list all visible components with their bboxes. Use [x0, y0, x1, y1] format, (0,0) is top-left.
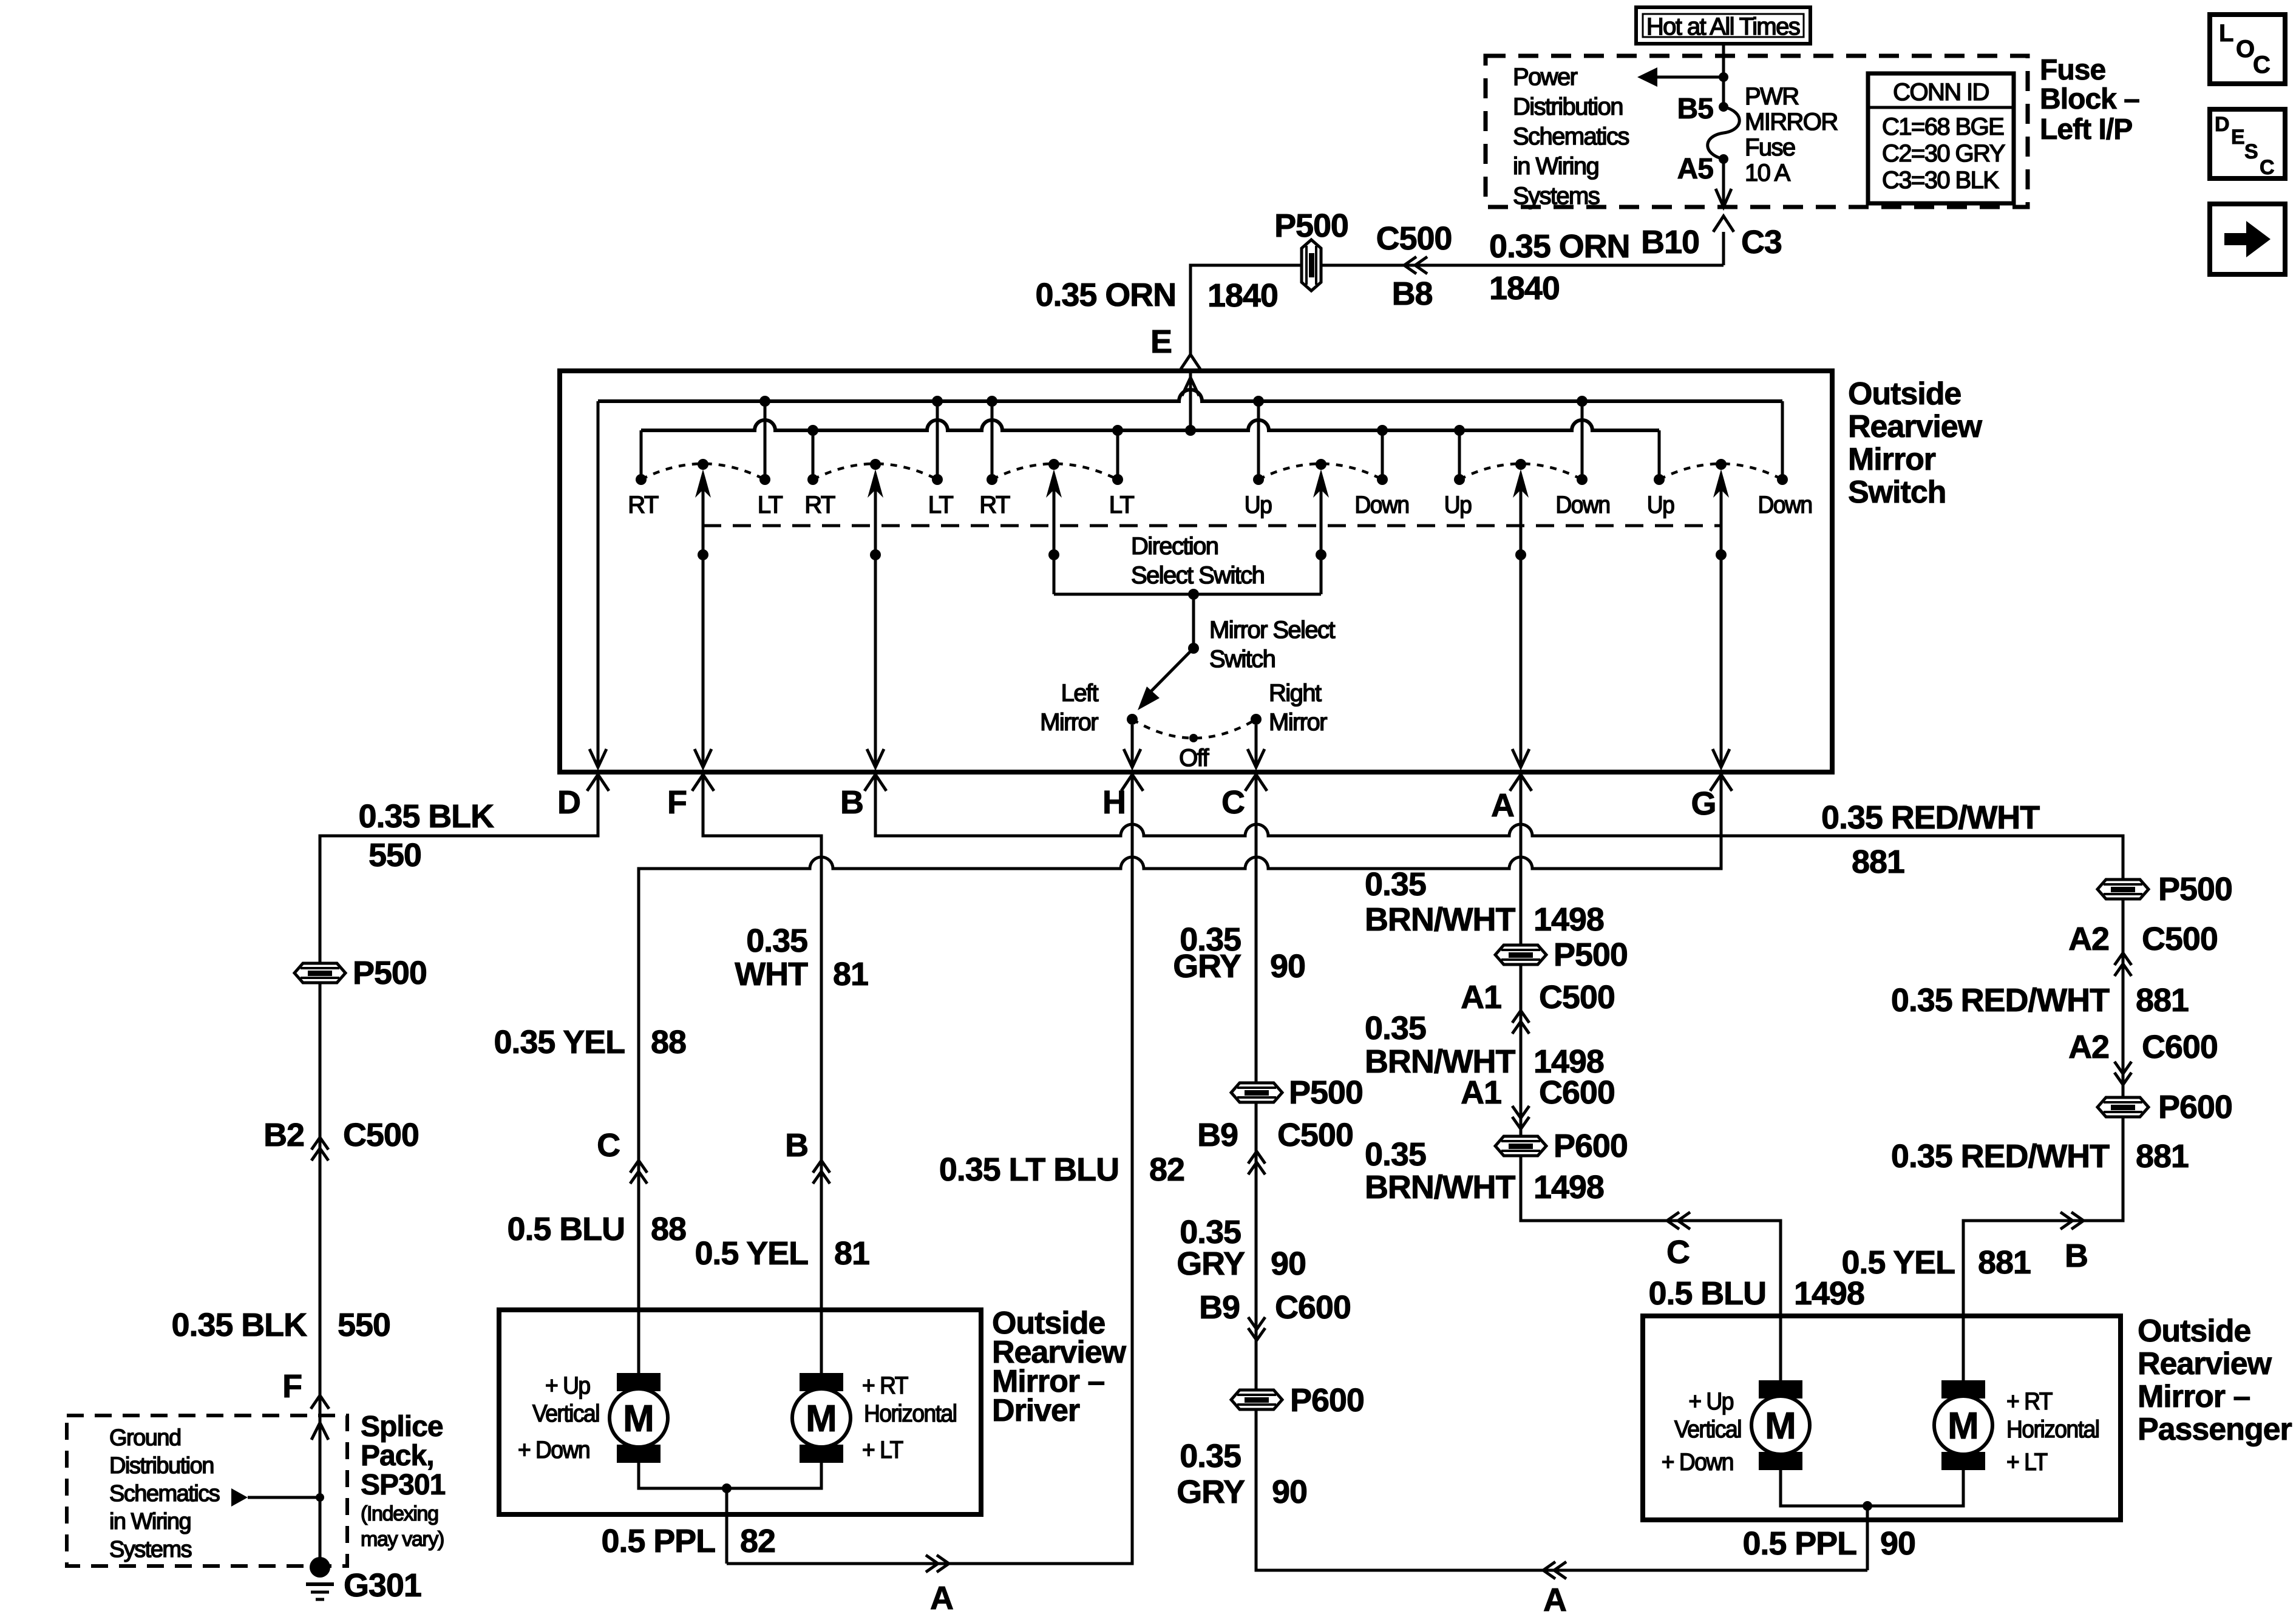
svg-text:Down: Down	[1758, 492, 1812, 519]
label Left Mirror	[1040, 680, 1098, 736]
svg-text:P500: P500	[1554, 937, 1628, 973]
svg-text:Rearview: Rearview	[1848, 409, 1983, 444]
label A2 C600	[2068, 1029, 2218, 1065]
wire bus A	[598, 390, 1782, 401]
contact dot LT3	[1112, 474, 1123, 485]
label Mirror Select Switch	[1209, 617, 1335, 673]
svg-text:0.35 BLK: 0.35 BLK	[359, 798, 495, 835]
off position dot	[1189, 734, 1198, 742]
svg-text:A5: A5	[1677, 153, 1714, 185]
pin letters D F B H C A G	[557, 784, 1716, 824]
svg-text:P600: P600	[2158, 1089, 2232, 1125]
label 1840 right	[1489, 270, 1560, 307]
svg-text:A1: A1	[1461, 1074, 1501, 1111]
svg-text:1498: 1498	[1533, 1169, 1604, 1205]
svg-text:Hot at All Times: Hot at All Times	[1646, 13, 1800, 40]
svg-text:C: C	[2253, 52, 2271, 78]
label 0.5 BLU 1498	[1649, 1275, 1864, 1312]
svg-text:may vary): may vary)	[361, 1528, 444, 1551]
svg-text:B: B	[840, 784, 863, 821]
svg-text:81: 81	[834, 1235, 869, 1272]
svg-text:B5: B5	[1677, 93, 1714, 125]
svg-text:M: M	[623, 1398, 654, 1440]
svg-text:LT: LT	[758, 492, 783, 518]
svg-text:Direction: Direction	[1131, 533, 1218, 560]
contact dot Up3	[1654, 474, 1665, 485]
svg-text:C600: C600	[2142, 1029, 2218, 1065]
wire stub bus A to contact LT1	[764, 401, 767, 476]
wire stub bus B to contact RT2	[812, 430, 815, 476]
contact labels RT LT row	[628, 492, 1134, 518]
contact dot Up1	[1253, 474, 1264, 485]
label Direction Select Switch	[1131, 533, 1264, 589]
switch pole arrow sw4	[1313, 469, 1329, 498]
svg-text:M: M	[1948, 1405, 1979, 1447]
svg-text:BRN/WHT: BRN/WHT	[1365, 901, 1515, 938]
connector A2 C500 chevrons	[2114, 953, 2131, 976]
connector driver pin B chevrons	[813, 1161, 830, 1184]
svg-text:Outside: Outside	[1848, 376, 1961, 412]
svg-text:+ LT: + LT	[2006, 1449, 2048, 1476]
wire fuse output to B10	[1716, 159, 1731, 207]
svg-text:Down: Down	[1354, 492, 1408, 519]
svg-text:1498: 1498	[1533, 901, 1604, 938]
svg-text:GRY: GRY	[1177, 1474, 1245, 1510]
connector B passenger chevrons	[2060, 1212, 2084, 1229]
svg-text:C1=68 BGE: C1=68 BGE	[1882, 114, 2003, 140]
connector pin F chevron	[311, 1395, 329, 1409]
label E	[1150, 324, 1172, 360]
wire 0.35 LT BLU 82 from H to driver common	[727, 776, 1132, 1564]
wire passenger motors common	[1781, 1470, 1963, 1570]
svg-text:0.35: 0.35	[1365, 1136, 1426, 1173]
svg-text:F: F	[667, 784, 687, 821]
junction dot on fuse feed	[1719, 72, 1728, 82]
label B10	[1641, 224, 1699, 260]
junction dot bus A x2073	[1253, 396, 1264, 407]
label 0.5 PPL 82	[601, 1523, 775, 1559]
svg-text:Block –: Block –	[2040, 83, 2139, 115]
svg-text:Fuse: Fuse	[2040, 54, 2105, 86]
svg-text:0.5 PPL: 0.5 PPL	[601, 1523, 715, 1559]
wire stub bus B to contact Up2	[1458, 430, 1461, 476]
svg-text:RT: RT	[628, 492, 659, 518]
connector A driver chevrons	[926, 1555, 949, 1572]
connector B9 C500 chevrons	[1248, 1151, 1265, 1175]
svg-text:Schematics: Schematics	[1513, 123, 1629, 150]
motor M driver vertical	[610, 1373, 668, 1463]
label 0.35 RED/WHT mid	[1891, 982, 2110, 1019]
svg-text:Distribution: Distribution	[1513, 93, 1623, 120]
label 0.35 BRN/WHT 1498 second	[1365, 1010, 1604, 1080]
wire pole stem sw3	[1053, 489, 1056, 594]
svg-text:M: M	[1765, 1405, 1796, 1447]
svg-text:B: B	[2065, 1238, 2088, 1274]
svg-text:Horizontal: Horizontal	[2006, 1416, 2099, 1443]
svg-text:C: C	[597, 1127, 620, 1164]
label 550 top	[369, 837, 421, 873]
ground G301 dot	[310, 1557, 330, 1578]
wire mirror select stem	[1192, 594, 1195, 648]
connector P600 on GRY	[1231, 1382, 1364, 1419]
svg-text:Systems: Systems	[109, 1537, 192, 1562]
contact dot Down2	[1577, 474, 1588, 485]
svg-text:C2=30 GRY: C2=30 GRY	[1882, 140, 2005, 167]
switch pole arrow sw1	[695, 469, 711, 498]
svg-text:0.35: 0.35	[1365, 1010, 1426, 1046]
connector B2 C500 chevrons	[311, 1137, 328, 1161]
wire 0.35 YEL 88 from G to driver mirror C	[639, 776, 1721, 1373]
wire bus B	[641, 420, 1659, 430]
svg-text:0.35 RED/WHT: 0.35 RED/WHT	[1891, 1138, 2110, 1175]
wire E into switch box	[1189, 369, 1192, 373]
svg-text:C500: C500	[1376, 220, 1452, 257]
label Outside Rearview Mirror Passenger	[2138, 1314, 2292, 1447]
svg-text:Up: Up	[1444, 492, 1472, 519]
svg-text:SP301: SP301	[361, 1469, 446, 1501]
label 1840 left	[1207, 277, 1278, 314]
junction dot bus A x1634	[987, 396, 997, 407]
connector pin D chevron	[587, 775, 609, 791]
label A passenger	[1543, 1582, 1566, 1617]
connector C passenger chevrons	[1667, 1212, 1690, 1229]
svg-text:881: 881	[1852, 844, 1904, 880]
svg-text:81: 81	[833, 956, 868, 992]
contact dot RT3	[987, 474, 997, 485]
svg-text:0.35 RED/WHT: 0.35 RED/WHT	[1821, 799, 2040, 836]
label + RT Horizontal + LT driver	[862, 1372, 957, 1464]
svg-text:E: E	[1150, 324, 1172, 360]
wire stub bus A to contact Up1	[1257, 401, 1260, 476]
wire bus A right drop	[1781, 401, 1784, 476]
svg-text:88: 88	[651, 1211, 686, 1247]
wire E entry drop	[1182, 373, 1199, 430]
svg-text:P500: P500	[1289, 1074, 1363, 1111]
junction dot stem sw2	[870, 549, 881, 560]
label 0.5 YEL 881	[1841, 1244, 2030, 1281]
svg-text:Power: Power	[1513, 64, 1578, 90]
svg-text:C: C	[1221, 784, 1245, 821]
switch pole arrow sw3	[1046, 469, 1062, 498]
dashed gang line	[703, 524, 1721, 527]
junction dot passenger common	[1863, 1501, 1872, 1511]
svg-text:C500: C500	[343, 1117, 419, 1153]
connector P500 on BLK wire	[294, 955, 427, 991]
motor M driver horizontal	[792, 1373, 851, 1463]
svg-text:Switch: Switch	[1209, 646, 1275, 673]
svg-text:PWR: PWR	[1745, 83, 1799, 110]
fuse F_PWR_MIRROR element	[1708, 107, 1740, 159]
svg-text:0.35 LT BLU: 0.35 LT BLU	[939, 1151, 1119, 1188]
contact dot Left Mirror	[1127, 714, 1138, 725]
switch pole dot sw4	[1316, 459, 1326, 470]
contact dot LT2	[932, 474, 943, 485]
wire stub bus A to contact Down2	[1581, 401, 1584, 476]
label B2	[263, 1117, 304, 1153]
CONN ID table	[1868, 73, 2014, 203]
label Outside Rearview Mirror Driver	[992, 1306, 1127, 1428]
connector P500 on BRN WHT	[1495, 937, 1628, 973]
wire 0.35 ORN 1840 from C3 to switch E	[1190, 265, 1724, 354]
label 0.35 BRN/WHT 1498 first	[1365, 866, 1604, 938]
splice junction dot	[316, 1493, 324, 1502]
svg-text:0.35: 0.35	[746, 923, 807, 959]
connector A passenger chevrons	[1543, 1562, 1566, 1579]
label 0.35 GRY 90 second	[1177, 1214, 1306, 1282]
connector pin B chevron	[864, 775, 886, 791]
svg-text:+ RT: + RT	[2006, 1388, 2053, 1415]
label 0.35 GRY 90 first	[1173, 921, 1305, 985]
svg-text:P500: P500	[2158, 871, 2232, 907]
label 881 top	[1852, 844, 1904, 880]
svg-text:881: 881	[2136, 982, 2189, 1019]
svg-text:+ Up: + Up	[1688, 1388, 1733, 1415]
contact dot Down3	[1777, 474, 1788, 485]
connector P500 on ORN wire	[1274, 208, 1348, 291]
switch pole dashed arc sw6	[1659, 464, 1782, 480]
svg-text:550: 550	[369, 837, 421, 873]
svg-text:0.5 BLU: 0.5 BLU	[508, 1211, 625, 1247]
junction dot bus B x1339	[807, 425, 818, 436]
junction dot stem sw6	[1716, 549, 1727, 560]
svg-text:in Wiring: in Wiring	[1513, 153, 1598, 180]
label C500	[1376, 220, 1452, 257]
label 0.35 RED/WHT top	[1821, 799, 2040, 836]
svg-text:B: B	[785, 1127, 808, 1164]
svg-text:Vertical: Vertical	[532, 1400, 599, 1428]
label 550 mid	[338, 1307, 390, 1343]
svg-text:Mirror: Mirror	[1848, 442, 1936, 477]
svg-text:Mirror: Mirror	[1040, 709, 1098, 736]
svg-text:H: H	[1102, 784, 1126, 821]
Outside Rearview Mirror Driver box	[499, 1310, 981, 1514]
contact dot RT1	[636, 474, 647, 485]
svg-text:C3: C3	[1741, 224, 1782, 260]
svg-text:A: A	[1491, 787, 1514, 824]
svg-text:Splice: Splice	[361, 1411, 443, 1443]
ground distribution arrow	[231, 1488, 320, 1507]
svg-text:L: L	[2219, 20, 2233, 47]
svg-text:Ground: Ground	[109, 1425, 181, 1451]
svg-text:+ Up: + Up	[545, 1372, 590, 1400]
switch pole dot sw1	[698, 459, 708, 470]
svg-text:Driver: Driver	[992, 1393, 1080, 1428]
wire bus B right drop	[1658, 430, 1661, 476]
fuse block note text	[1513, 64, 1629, 209]
off position dashed arc	[1132, 719, 1256, 738]
splice pack dashed box	[67, 1415, 347, 1566]
switch pole arrow sw5	[1513, 469, 1529, 498]
LOC reference box	[2210, 15, 2285, 84]
junction dot driver common	[722, 1483, 732, 1493]
terminal B5 dot	[1719, 102, 1728, 112]
svg-text:Left I/P: Left I/P	[2040, 114, 2132, 146]
svg-text:E: E	[2231, 126, 2245, 149]
svg-text:G: G	[1691, 785, 1716, 822]
wire pole stem sw4	[1320, 489, 1323, 594]
svg-text:Fuse: Fuse	[1745, 134, 1795, 161]
switch pole dashed arc sw3	[992, 464, 1118, 480]
connector P600 on BRN WHT	[1495, 1128, 1628, 1164]
svg-text:B10: B10	[1641, 224, 1699, 260]
wire 0.35 BLK 550 from D to splice pack	[320, 776, 598, 1565]
DESC reference box	[2210, 109, 2285, 179]
svg-text:S: S	[2244, 140, 2258, 163]
connector A1 C600 chevrons	[1512, 1106, 1529, 1129]
label 0.35 RED/WHT lower	[1891, 1138, 2110, 1175]
label A1 C600	[1461, 1074, 1615, 1111]
splice wire entry arrow	[311, 1423, 328, 1440]
junction dot stem sw5	[1515, 549, 1526, 560]
forward reference arrow box	[2210, 204, 2285, 274]
label 0.35 ORN right	[1489, 228, 1629, 265]
label 0.5 BLU 88	[508, 1211, 686, 1247]
svg-text:0.35 BLK: 0.35 BLK	[172, 1307, 308, 1343]
svg-text:D: D	[557, 784, 580, 821]
switch pole arrow sw2	[868, 469, 883, 498]
svg-text:O: O	[2236, 36, 2255, 63]
label B8	[1392, 276, 1433, 312]
svg-text:+ LT: + LT	[862, 1437, 903, 1464]
junction dot E on bus B	[1185, 425, 1196, 436]
Outside Rearview Mirror Switch box	[560, 371, 1832, 772]
svg-text:82: 82	[740, 1523, 775, 1559]
junction dot bus A x1260	[759, 396, 770, 407]
wire direction select bracket	[1054, 593, 1321, 596]
svg-text:Systems: Systems	[1513, 183, 1600, 209]
svg-text:B9: B9	[1197, 1117, 1238, 1153]
wire 0.35 GRY 90 from C to passenger common	[1256, 776, 1867, 1570]
label B9 C500	[1197, 1117, 1353, 1153]
svg-text:0.35 RED/WHT: 0.35 RED/WHT	[1891, 982, 2110, 1019]
svg-text:G301: G301	[344, 1567, 421, 1604]
wire 0.35 RED WHT 881 from B to passenger mirror B	[875, 776, 2123, 1380]
svg-text:BRN/WHT: BRN/WHT	[1365, 1169, 1515, 1205]
switch pole dot sw2	[870, 459, 881, 470]
connector pin B10-C3 chevron	[1713, 216, 1734, 232]
connector pin C chevron	[1245, 775, 1267, 791]
connector P500 on GRY	[1231, 1074, 1363, 1111]
switch pole dot sw5	[1515, 459, 1526, 470]
label G301	[344, 1567, 421, 1604]
connector pin A chevron	[1510, 775, 1532, 791]
label 0.35 WHT	[735, 923, 808, 992]
svg-text:881: 881	[1978, 1244, 2031, 1281]
switch pole dashed arc sw4	[1258, 464, 1382, 480]
svg-text:Distribution: Distribution	[109, 1453, 214, 1479]
svg-text:C500: C500	[1539, 979, 1615, 1015]
svg-text:LT: LT	[928, 492, 954, 518]
arrow to power distribution schematics	[1637, 67, 1724, 87]
svg-text:1840: 1840	[1207, 277, 1278, 314]
svg-text:Schematics: Schematics	[109, 1481, 220, 1507]
label PWR MIRROR Fuse 10A	[1745, 83, 1838, 186]
connector pin E chevron	[1181, 354, 1200, 369]
svg-text:D: D	[2215, 113, 2230, 136]
switch pole arrow sw6	[1713, 469, 1729, 498]
label 0.35 GRY 90 third	[1177, 1438, 1307, 1510]
svg-text:0.5 BLU: 0.5 BLU	[1649, 1275, 1767, 1312]
label 0.35 BLK mid	[172, 1307, 308, 1343]
svg-text:LT: LT	[1109, 492, 1135, 518]
svg-text:WHT: WHT	[735, 956, 808, 992]
svg-text:GRY: GRY	[1173, 948, 1241, 985]
svg-text:Off: Off	[1179, 745, 1209, 771]
svg-text:+ Down: + Down	[518, 1437, 589, 1464]
label 0.35 YEL 88	[494, 1024, 685, 1060]
wire bus A left drop to exit D	[589, 401, 606, 767]
switch pole dot sw3	[1048, 459, 1059, 470]
svg-text:C3=30 BLK: C3=30 BLK	[1882, 167, 1999, 194]
label 881 mid	[2136, 982, 2189, 1019]
ground symbol	[306, 1584, 334, 1599]
mirror select switch arm	[1138, 648, 1194, 710]
label 881 lower	[2136, 1138, 2189, 1175]
label C driver pin	[597, 1127, 620, 1164]
switch pole dashed arc sw1	[641, 464, 765, 480]
svg-text:550: 550	[338, 1307, 390, 1343]
junction dot bus A x2606	[1577, 396, 1588, 407]
svg-text:GRY: GRY	[1177, 1246, 1245, 1282]
svg-text:A: A	[1543, 1582, 1566, 1617]
label 0.5 YEL 81	[695, 1235, 869, 1272]
svg-text:(Indexing: (Indexing	[361, 1502, 438, 1525]
junction dot stem sw3	[1048, 549, 1059, 560]
label 81 upper	[833, 956, 868, 992]
wire 0.35 BRN WHT 1498 from A to passenger mirror C	[1521, 776, 1781, 1380]
svg-text:0.35: 0.35	[1365, 866, 1426, 903]
svg-text:881: 881	[2136, 1138, 2189, 1175]
wire Right Mirror to exit C	[1248, 725, 1265, 767]
svg-text:0.35: 0.35	[1180, 1214, 1241, 1250]
contact dot LT1	[759, 474, 770, 485]
svg-text:90: 90	[1270, 948, 1305, 985]
wire stub bus A to contact RT3	[991, 401, 994, 476]
wire stub bus A to contact LT2	[936, 401, 939, 476]
svg-text:88: 88	[651, 1024, 686, 1060]
svg-text:Rearview: Rearview	[2138, 1346, 2272, 1381]
wire bus B left drop	[640, 430, 643, 476]
wire pole stem sw1 to exit F	[695, 489, 712, 767]
label Ground Distribution Schematics in Wiring Systems	[109, 1425, 220, 1562]
connector A2 C600 chevrons	[2114, 1062, 2131, 1085]
label B9 C600	[1199, 1289, 1351, 1326]
label F splice	[282, 1368, 302, 1405]
svg-text:A1: A1	[1461, 979, 1501, 1015]
label B passenger pin	[2065, 1238, 2088, 1274]
switch pole dashed arc sw2	[813, 464, 937, 480]
wire stub bus B to contact LT3	[1116, 430, 1119, 476]
connector pin H chevron	[1121, 775, 1143, 791]
terminal A5 dot	[1719, 154, 1728, 164]
svg-text:RT: RT	[804, 492, 835, 518]
connector P500 on RED WHT	[2097, 871, 2232, 907]
connector C500 B8 chevrons	[1404, 257, 1427, 274]
svg-text:RT: RT	[979, 492, 1010, 518]
label Outside Rearview Mirror Switch	[1848, 376, 1983, 510]
wire from Hot at All Times into fuse block	[1722, 44, 1725, 107]
label 0.35 BRN/WHT 1498 third	[1365, 1136, 1604, 1205]
label + Up Vertical + Down passenger	[1662, 1388, 1741, 1476]
svg-text:82: 82	[1149, 1151, 1184, 1188]
label A5	[1677, 153, 1714, 185]
svg-text:10 A: 10 A	[1745, 160, 1791, 186]
junction dot bus A x1544	[932, 396, 943, 407]
svg-text:Pack,: Pack,	[361, 1440, 434, 1472]
label 0.5 PPL 90	[1742, 1525, 1915, 1562]
label 0.35 ORN left	[1036, 277, 1176, 313]
motor M passenger horizontal	[1934, 1380, 1992, 1470]
